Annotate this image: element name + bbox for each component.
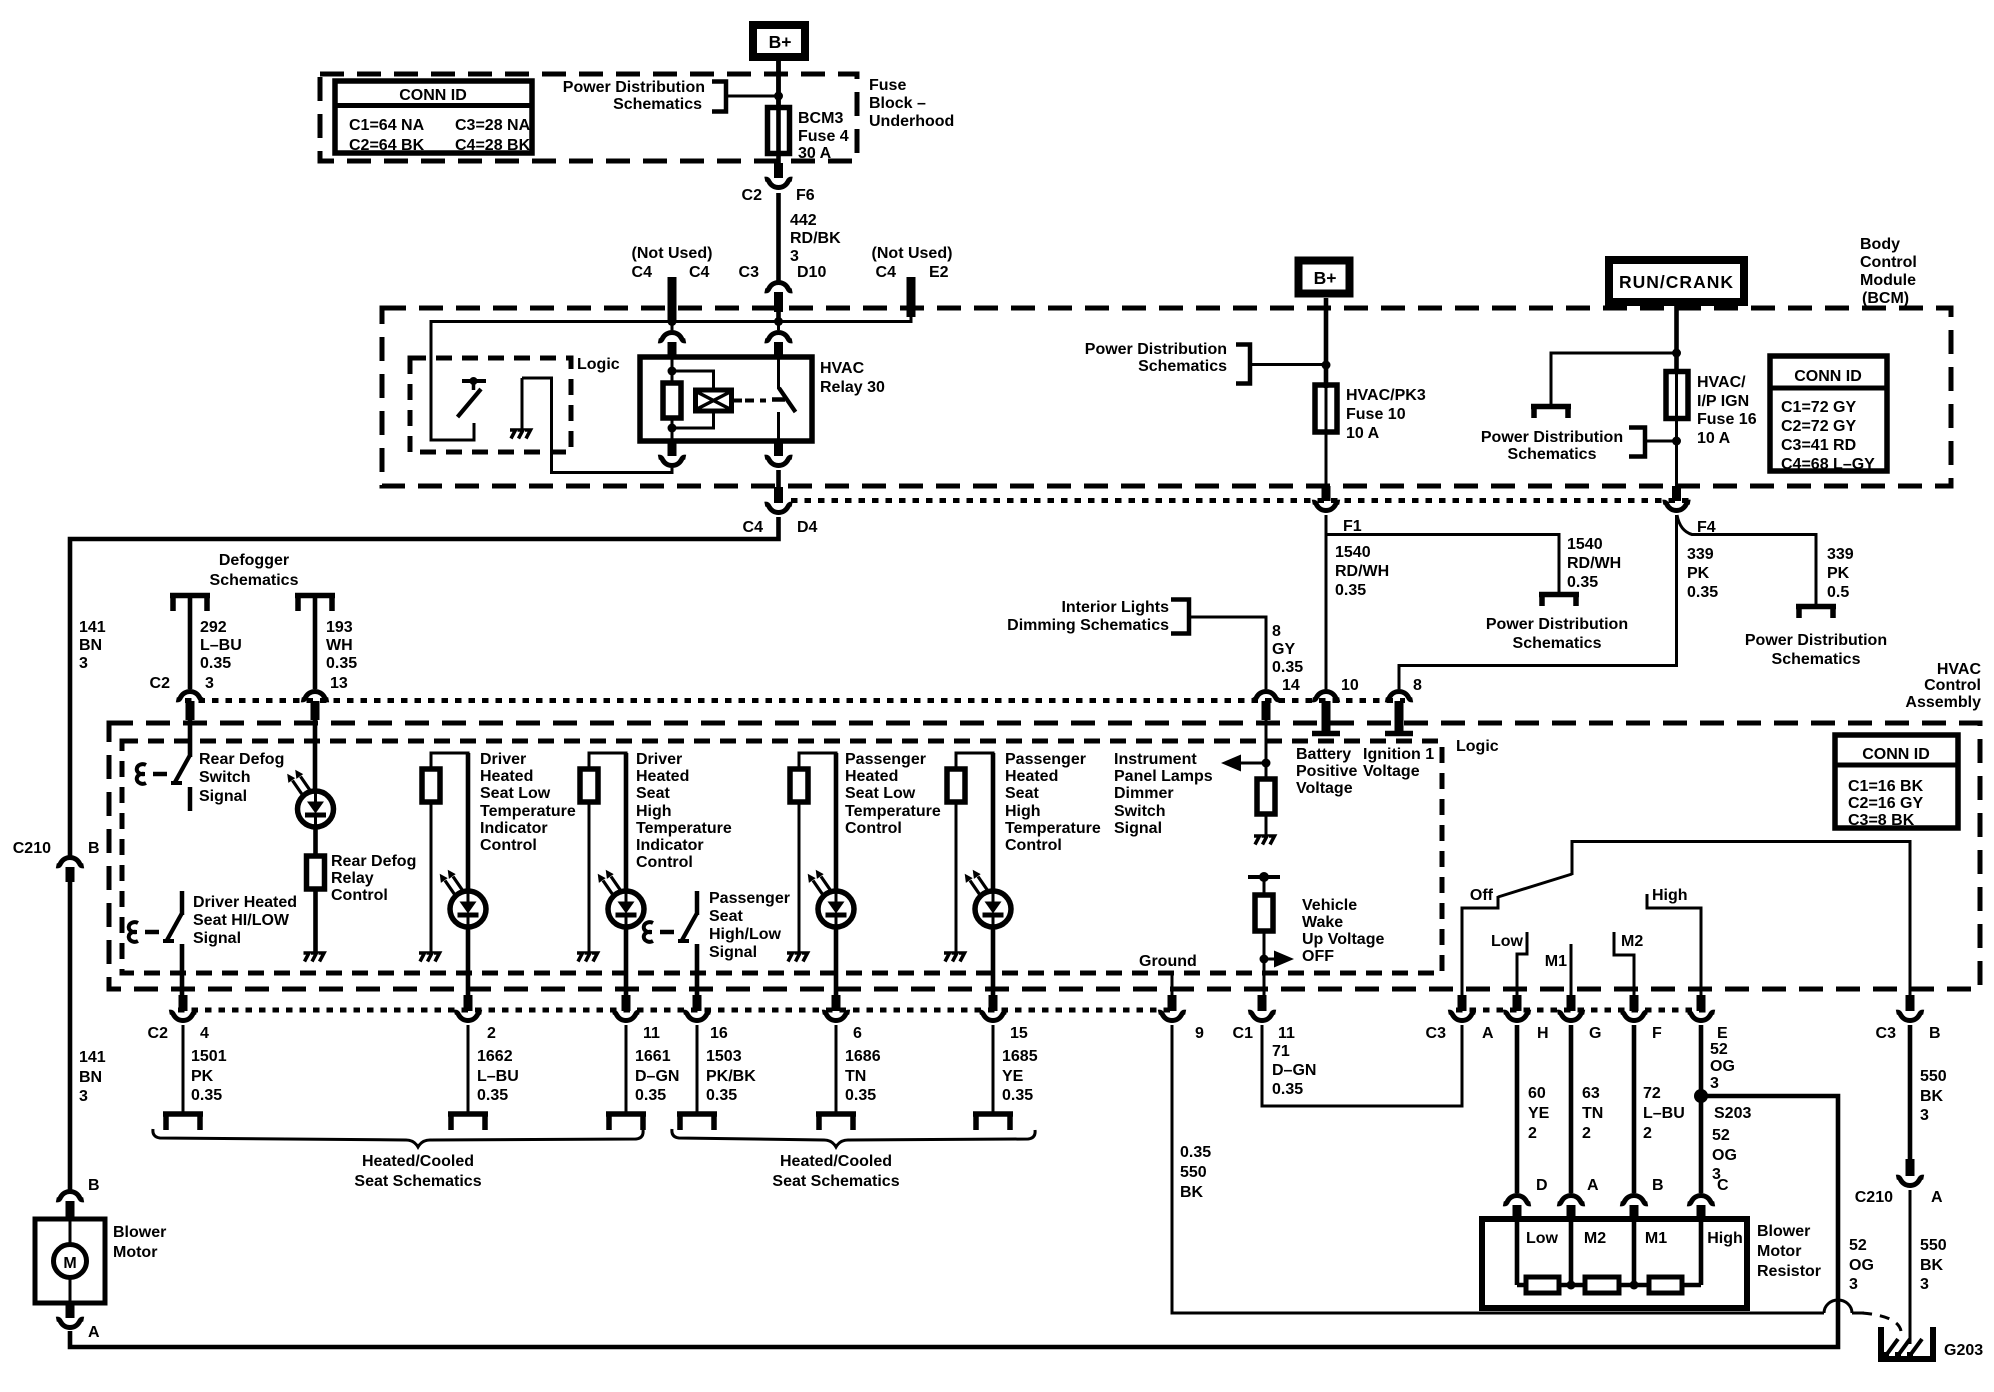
logic switch symbol xyxy=(458,377,487,417)
svg-text:Signal: Signal xyxy=(709,944,757,961)
svg-text:Logic: Logic xyxy=(1456,738,1499,755)
driver heated seat HI/LOW switch xyxy=(129,891,182,999)
svg-text:52: 52 xyxy=(1712,1127,1730,1144)
svg-text:Assembly: Assembly xyxy=(1905,694,1981,711)
relay clamp loop wire xyxy=(672,371,714,428)
HVAC control assembly dashed box xyxy=(109,723,1980,989)
svg-text:B: B xyxy=(1929,1025,1941,1042)
power distribution schematics reference bracket xyxy=(1236,345,1250,384)
goto bracket xyxy=(606,1114,646,1130)
svg-text:1503: 1503 xyxy=(706,1048,742,1065)
wire to power distribution bracket xyxy=(1250,363,1326,366)
resistor chain wire xyxy=(1517,1283,1701,1288)
connector socket C2/3 xyxy=(176,691,203,699)
svg-text:52: 52 xyxy=(1710,1041,1728,1058)
svg-text:3: 3 xyxy=(79,655,88,672)
wire hop over S203 wire xyxy=(1824,1300,1864,1313)
wire 1685 YE xyxy=(992,1025,995,1113)
driver heated seat low indicator loop xyxy=(431,753,468,770)
svg-text:Low: Low xyxy=(1491,933,1524,950)
label 8 GY 0.35 xyxy=(1272,623,1303,676)
connector pin stub H xyxy=(1513,995,1522,1011)
svg-text:Blower: Blower xyxy=(1757,1223,1810,1240)
svg-text:72: 72 xyxy=(1643,1085,1661,1102)
connector socket F4 xyxy=(1663,502,1690,510)
wire switch to C4 connector xyxy=(776,470,781,489)
svg-text:H: H xyxy=(1537,1025,1549,1042)
svg-text:PK: PK xyxy=(1687,565,1710,582)
svg-text:Control: Control xyxy=(480,837,537,854)
wire resistor to ground xyxy=(955,802,958,953)
svg-text:Fuse 16: Fuse 16 xyxy=(1697,411,1757,428)
goto bracket xyxy=(816,1114,856,1130)
connector pin stub 6 xyxy=(832,995,841,1011)
wire wake to connector 11 xyxy=(1263,931,1266,999)
label C2 4 xyxy=(148,1025,209,1042)
svg-text:0.35: 0.35 xyxy=(1335,582,1366,599)
ground xyxy=(419,953,440,962)
wire 550 BK to G203 xyxy=(1909,1190,1912,1344)
connector pin stub F6 xyxy=(774,163,783,178)
connector dotted line C4/D4-F1-F4 xyxy=(791,498,1690,503)
svg-text:D: D xyxy=(1536,1177,1548,1194)
svg-text:Defogger: Defogger xyxy=(219,552,289,569)
wake off arrow xyxy=(1260,951,1295,968)
wire 550 BK 3 upper xyxy=(1908,1025,1913,1160)
svg-text:Block –: Block – xyxy=(869,95,926,112)
svg-text:C4: C4 xyxy=(689,264,710,281)
svg-text:G: G xyxy=(1589,1025,1601,1042)
wire logic to relay coil xyxy=(522,378,672,473)
label 442 RD/BK 3 xyxy=(790,212,841,265)
svg-text:Power Distribution: Power Distribution xyxy=(1481,429,1623,446)
node dot chain B xyxy=(1630,1281,1639,1290)
svg-text:(Not Used): (Not Used) xyxy=(872,245,953,262)
label S203 52 OG 3 xyxy=(1712,1105,1751,1183)
svg-text:CONN ID: CONN ID xyxy=(1794,368,1862,385)
label 339 PK 0.5 xyxy=(1827,546,1854,601)
svg-text:Positive: Positive xyxy=(1296,763,1357,780)
wire LED to connector 2 xyxy=(466,927,471,999)
connector dotted line HVAC bottom left xyxy=(178,1008,1172,1013)
wire LED branch xyxy=(624,753,629,895)
svg-text:Driver: Driver xyxy=(480,751,526,768)
connector pin stub A xyxy=(1567,1205,1576,1220)
svg-text:Logic: Logic xyxy=(577,356,620,373)
connector dotted line HVAC top xyxy=(185,698,1405,703)
svg-text:C4=68 L–GY: C4=68 L–GY xyxy=(1781,456,1875,473)
resistor dimmer xyxy=(1257,779,1275,814)
LED driver heated seat high xyxy=(598,870,644,927)
connector socket A xyxy=(1557,1195,1584,1203)
wire 339 PK 0.5 branch xyxy=(1677,515,1816,605)
svg-text:3: 3 xyxy=(790,248,799,265)
connector socket coil bottom xyxy=(658,457,685,465)
svg-text:G203: G203 xyxy=(1944,1342,1983,1359)
svg-text:3: 3 xyxy=(1849,1276,1858,1293)
connector pin stub C3/B xyxy=(1906,995,1915,1011)
svg-text:B: B xyxy=(88,1177,100,1194)
svg-text:Fuse 10: Fuse 10 xyxy=(1346,406,1406,423)
wire to goto bracket xyxy=(1551,353,1677,405)
wire LED to resistor xyxy=(313,827,318,858)
svg-text:A: A xyxy=(88,1324,100,1341)
svg-text:F6: F6 xyxy=(796,187,815,204)
wire 72 L-BU 2 xyxy=(1632,1025,1637,1193)
connector socket 6 xyxy=(822,1012,849,1020)
svg-text:D10: D10 xyxy=(797,264,826,281)
connector socket 11 xyxy=(612,1012,639,1020)
svg-text:OG: OG xyxy=(1849,1257,1874,1274)
resistor vehicle wake xyxy=(1255,895,1273,931)
resistor low xyxy=(1526,1277,1559,1293)
svg-text:C3: C3 xyxy=(1426,1025,1447,1042)
connector socket C2/F6 xyxy=(765,179,792,187)
svg-text:PK: PK xyxy=(1827,565,1850,582)
svg-text:10: 10 xyxy=(1341,677,1359,694)
svg-text:0.5: 0.5 xyxy=(1827,584,1849,601)
brace heated/cooled seat schematics left xyxy=(153,1129,643,1147)
wire relay switch upper xyxy=(777,358,780,389)
svg-text:TN: TN xyxy=(845,1068,866,1085)
goto bracket defogger 2 xyxy=(295,596,335,612)
svg-text:C4: C4 xyxy=(876,264,897,281)
svg-text:13: 13 xyxy=(330,675,348,692)
wire 1540 branch to power distribution xyxy=(1326,535,1559,594)
label Passenger Seat High/Low Signal xyxy=(709,890,790,961)
svg-text:CONN ID: CONN ID xyxy=(1862,746,1930,763)
svg-text:HVAC: HVAC xyxy=(1937,661,1982,678)
label Passenger Heated Seat Low Temperature Control xyxy=(845,751,941,837)
svg-text:1661: 1661 xyxy=(635,1048,671,1065)
ground G203 xyxy=(1878,1327,1936,1359)
fuse BCM3 Fuse 4 30A xyxy=(768,61,790,164)
svg-text:E: E xyxy=(1717,1025,1728,1042)
label power distribution schematics xyxy=(1085,341,1227,375)
goto bracket power distribution xyxy=(1531,407,1571,419)
svg-text:Power Distribution: Power Distribution xyxy=(1486,616,1628,633)
connector socket switch pin xyxy=(765,332,792,340)
svg-text:B+: B+ xyxy=(1314,268,1337,288)
svg-text:High: High xyxy=(1652,887,1688,904)
svg-text:Dimmer: Dimmer xyxy=(1114,785,1174,802)
wire 442 RD/BK 3 xyxy=(776,193,781,281)
brace heated/cooled seat schematics right xyxy=(672,1129,1035,1147)
svg-text:442: 442 xyxy=(790,212,817,229)
svg-text:Schematics: Schematics xyxy=(1508,446,1597,463)
fuse HVAC/PK3 Fuse 10 10A xyxy=(1315,385,1337,488)
svg-text:B+: B+ xyxy=(769,32,792,52)
label 141 BN 3 xyxy=(79,619,106,672)
label 1540 RD/WH 0.35 branch xyxy=(1567,536,1621,591)
wire D into resistor chain xyxy=(1515,1219,1520,1285)
svg-text:0.35: 0.35 xyxy=(326,655,357,672)
wire 1686 TN xyxy=(835,1025,838,1113)
wire diode to actuator xyxy=(732,399,743,403)
svg-text:Blower: Blower xyxy=(113,1224,166,1241)
node dot coil top xyxy=(668,367,677,376)
connector pin stub switch bottom xyxy=(774,441,783,456)
svg-text:0.35: 0.35 xyxy=(1272,1081,1303,1098)
svg-text:Switch: Switch xyxy=(199,769,251,786)
label C4 D4 xyxy=(743,519,818,536)
svg-text:9: 9 xyxy=(1195,1025,1204,1042)
svg-text:1685: 1685 xyxy=(1002,1048,1038,1065)
label 1662 L-BU 0.35 xyxy=(477,1048,519,1104)
svg-text:OG: OG xyxy=(1712,1147,1737,1164)
actuator dashed link xyxy=(745,399,766,403)
svg-text:C1=16 BK: C1=16 BK xyxy=(1848,778,1924,795)
svg-text:RD/WH: RD/WH xyxy=(1335,563,1389,580)
svg-text:Passenger: Passenger xyxy=(1005,751,1086,768)
svg-text:S203: S203 xyxy=(1714,1105,1751,1122)
svg-text:Passenger: Passenger xyxy=(709,890,790,907)
label 193 WH 0.35 xyxy=(326,619,357,672)
ground xyxy=(577,953,598,962)
svg-text:M2: M2 xyxy=(1621,933,1643,950)
svg-text:Driver: Driver xyxy=(636,751,682,768)
svg-text:Temperature: Temperature xyxy=(636,820,732,837)
wire relay coil branch xyxy=(671,358,674,441)
wire to power distribution bracket xyxy=(726,95,779,98)
wire resistor to ground xyxy=(798,802,801,953)
dimmer signal arrow xyxy=(1221,755,1266,772)
svg-text:Up Voltage: Up Voltage xyxy=(1302,931,1384,948)
label power distribution schematics xyxy=(563,79,705,113)
label 1661 D-GN 0.35 xyxy=(635,1048,679,1104)
svg-text:Heated/Cooled: Heated/Cooled xyxy=(362,1153,474,1170)
svg-text:(Not Used): (Not Used) xyxy=(632,245,713,262)
wire resistor to ground xyxy=(313,889,318,953)
wire wake xyxy=(1263,877,1266,897)
connector pin stub G xyxy=(1567,995,1576,1011)
svg-text:Control: Control xyxy=(1005,837,1062,854)
svg-text:Fuse: Fuse xyxy=(869,77,906,94)
node dot xyxy=(1322,361,1331,370)
svg-text:Ground: Ground xyxy=(1139,953,1197,970)
svg-text:Temperature: Temperature xyxy=(1005,820,1101,837)
label Low M2 M1 High xyxy=(1526,1230,1743,1247)
svg-text:F1: F1 xyxy=(1343,518,1362,535)
node dot xyxy=(1262,759,1271,768)
wire 63 TN 2 xyxy=(1569,1025,1574,1193)
svg-text:2: 2 xyxy=(1582,1125,1591,1142)
label 1503 PK/BK 0.35 xyxy=(706,1048,756,1104)
svg-text:Schematics: Schematics xyxy=(1513,635,1602,652)
goto bracket power distribution xyxy=(1539,595,1579,607)
label HVAC/PK3 Fuse 10 10 A xyxy=(1346,387,1426,442)
svg-text:550: 550 xyxy=(1920,1068,1947,1085)
node dot C4 stub xyxy=(668,317,677,326)
svg-text:M1: M1 xyxy=(1645,1230,1667,1247)
pin terminal bar 8 xyxy=(1385,731,1413,737)
svg-text:C210: C210 xyxy=(13,840,51,857)
svg-text:C210: C210 xyxy=(1855,1189,1893,1206)
label HVAC Control Assembly xyxy=(1905,661,1981,711)
B+ terminal box top xyxy=(753,25,805,57)
svg-text:F: F xyxy=(1652,1025,1662,1042)
svg-text:RD/BK: RD/BK xyxy=(790,230,841,247)
svg-text:Indicator: Indicator xyxy=(636,837,704,854)
label 141 BN 3 xyxy=(79,1049,106,1105)
connector pin stub D10 xyxy=(774,292,783,312)
resistor xyxy=(790,769,808,802)
label C2 F6 xyxy=(742,187,815,204)
resistor xyxy=(947,769,965,802)
svg-text:11: 11 xyxy=(1278,1025,1295,1042)
svg-text:Schematics: Schematics xyxy=(210,572,299,589)
label 1685 YE 0.35 xyxy=(1002,1048,1038,1104)
wire RUN/CRANK to fuse 16 xyxy=(1674,302,1679,374)
B+ terminal box right xyxy=(1299,261,1350,294)
svg-text:0.35: 0.35 xyxy=(191,1087,222,1104)
svg-text:10 A: 10 A xyxy=(1346,425,1380,442)
wire LED branch xyxy=(466,753,471,895)
label Rear Defog Relay Control xyxy=(331,853,416,904)
wire 8 GY 0.35 xyxy=(1189,617,1266,689)
connector socket 2 xyxy=(454,1012,481,1020)
wire relay switch pin xyxy=(777,322,780,331)
svg-text:10 A: 10 A xyxy=(1697,430,1731,447)
svg-text:0.35: 0.35 xyxy=(635,1087,666,1104)
blower motor symbol xyxy=(54,1219,87,1303)
svg-text:C3: C3 xyxy=(739,264,760,281)
svg-text:HVAC: HVAC xyxy=(820,360,865,377)
BCM logic dashed box xyxy=(410,358,571,452)
wire 71 D-GN to C3/A xyxy=(1262,1025,1462,1106)
blower switch high contact xyxy=(1647,894,1701,999)
connector pin stub C210 xyxy=(66,867,75,882)
rear defog switch signal switch xyxy=(137,720,190,811)
blower switch bus wire xyxy=(1572,842,1910,1000)
svg-text:D4: D4 xyxy=(797,519,818,536)
svg-text:A: A xyxy=(1482,1025,1494,1042)
svg-text:C2=72 GY: C2=72 GY xyxy=(1781,418,1856,435)
svg-text:Seat: Seat xyxy=(1005,785,1039,802)
svg-text:WH: WH xyxy=(326,637,353,654)
label HVAC Relay 30 xyxy=(820,360,885,396)
connector pin stub C xyxy=(1697,1205,1706,1220)
label Vehicle Wake Up Voltage OFF xyxy=(1302,897,1384,965)
connector pin stub blower B xyxy=(66,1201,75,1220)
resistor xyxy=(580,769,598,802)
svg-text:60: 60 xyxy=(1528,1085,1546,1102)
svg-text:GY: GY xyxy=(1272,641,1295,658)
svg-text:High: High xyxy=(1707,1230,1743,1247)
svg-text:Wake: Wake xyxy=(1302,914,1343,931)
connector socket 9 xyxy=(1158,1012,1185,1020)
label Heated/Cooled Seat Schematics xyxy=(772,1153,899,1190)
svg-text:E2: E2 xyxy=(929,264,949,281)
svg-text:Control: Control xyxy=(1860,254,1917,271)
label 60 YE 2 xyxy=(1528,1085,1550,1142)
wire resistor to ground xyxy=(1265,814,1268,836)
svg-text:Passenger: Passenger xyxy=(845,751,926,768)
connector pin stub 14 xyxy=(1262,701,1271,720)
node dot xyxy=(1672,349,1681,358)
wire LED branch xyxy=(834,753,839,895)
svg-text:3: 3 xyxy=(1920,1276,1929,1293)
label 63 TN 2 xyxy=(1582,1085,1603,1142)
connector socket H xyxy=(1503,1012,1530,1020)
svg-text:2: 2 xyxy=(1528,1125,1537,1142)
svg-text:0.35: 0.35 xyxy=(706,1087,737,1104)
connector dotted line HVAC bottom right xyxy=(1456,1008,1706,1013)
connector socket C3/D10 xyxy=(765,282,792,290)
relay coil resistor xyxy=(663,383,681,418)
svg-text:C2: C2 xyxy=(742,187,763,204)
svg-text:Heated: Heated xyxy=(1005,768,1058,785)
wire D4 to blower feed xyxy=(70,517,779,856)
svg-text:Power Distribution: Power Distribution xyxy=(1745,632,1887,649)
svg-text:16: 16 xyxy=(710,1025,728,1042)
svg-text:High: High xyxy=(1005,803,1041,820)
svg-text:L–BU: L–BU xyxy=(200,637,242,654)
goto bracket seat schematics xyxy=(163,1114,203,1130)
ground in logic box xyxy=(510,378,531,439)
svg-text:D–GN: D–GN xyxy=(1272,1062,1316,1079)
svg-text:Heated: Heated xyxy=(636,768,689,785)
wire 141 BN 3 to blower xyxy=(68,882,73,1191)
svg-text:141: 141 xyxy=(79,1049,106,1066)
connector socket B xyxy=(1620,1195,1647,1203)
svg-text:C2=64 BK: C2=64 BK xyxy=(349,137,425,154)
label 52 OG 3 xyxy=(1849,1237,1874,1293)
svg-text:RUN/CRANK: RUN/CRANK xyxy=(1619,272,1734,292)
label power distribution schematics xyxy=(1481,429,1623,463)
svg-text:BK: BK xyxy=(1180,1184,1204,1201)
connector pin stub B xyxy=(1630,1205,1639,1220)
svg-text:Heated: Heated xyxy=(845,768,898,785)
svg-text:0.35: 0.35 xyxy=(1002,1087,1033,1104)
svg-text:C1=64 NA: C1=64 NA xyxy=(349,117,425,134)
connector socket G xyxy=(1557,1012,1584,1020)
node dot chain A xyxy=(1567,1281,1576,1290)
pin stub not used C4 xyxy=(668,277,677,321)
svg-text:BK: BK xyxy=(1920,1088,1944,1105)
svg-text:Heated: Heated xyxy=(480,768,533,785)
svg-text:C2: C2 xyxy=(148,1025,169,1042)
svg-text:0.35: 0.35 xyxy=(477,1087,508,1104)
svg-text:I/P IGN: I/P IGN xyxy=(1697,393,1749,410)
svg-text:D–GN: D–GN xyxy=(635,1068,679,1085)
svg-text:0.35: 0.35 xyxy=(200,655,231,672)
label Driver Heated Seat HI/LOW Signal xyxy=(193,894,297,947)
label Blower Motor Resistor xyxy=(1757,1223,1821,1280)
svg-text:3: 3 xyxy=(1710,1075,1719,1092)
wire resistor to ground xyxy=(588,802,591,953)
svg-text:Control: Control xyxy=(331,887,388,904)
driver heated seat high indicator loop xyxy=(589,753,626,770)
svg-text:0.35: 0.35 xyxy=(845,1087,876,1104)
svg-text:OFF: OFF xyxy=(1302,948,1334,965)
wire LED to connector 11 xyxy=(624,927,629,999)
svg-text:0.35: 0.35 xyxy=(1180,1144,1211,1161)
svg-text:1662: 1662 xyxy=(477,1048,513,1065)
svg-text:(BCM): (BCM) xyxy=(1862,290,1909,307)
connector socket F xyxy=(1620,1012,1647,1020)
splice S203 dot xyxy=(1694,1089,1708,1103)
LED driver heated seat low xyxy=(440,870,486,927)
svg-text:Battery: Battery xyxy=(1296,746,1351,763)
wire 550 BK ground 9 xyxy=(1172,1025,1824,1313)
ground xyxy=(1254,836,1275,845)
connector pin stub 8 xyxy=(1395,701,1404,731)
svg-text:3: 3 xyxy=(79,1088,88,1105)
label fuse block underhood xyxy=(869,77,954,130)
connector pin stub 9 xyxy=(1168,995,1177,1011)
svg-text:C4: C4 xyxy=(632,264,653,281)
